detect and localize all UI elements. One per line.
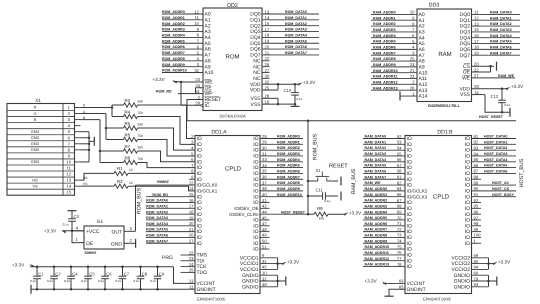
wire VSS to ground [485, 95, 510, 113]
svg-text:RAM_ADDR12: RAM_ADDR12 [373, 80, 398, 84]
svg-text:RAM_ADDR13: RAM_ADDR13 [365, 263, 390, 267]
oscillator G1 50MHZ [84, 226, 124, 249]
svg-text:14: 14 [189, 186, 194, 191]
svg-text:31: 31 [262, 151, 267, 156]
DD3 pin A7 / RAM_ADDR7 [371, 54, 417, 56]
svg-text:ROM_DATA2: ROM_DATA2 [146, 210, 168, 214]
IC DD3 RAM D43256BGU-70LL [417, 9, 472, 102]
DD3 pin OE 22 [472, 71, 491, 73]
svg-text:390: 390 [319, 217, 325, 221]
svg-text:11: 11 [67, 166, 72, 171]
svg-text:DD1:B: DD1:B [437, 129, 453, 135]
svg-text:RAM_ADDR8: RAM_ADDR8 [365, 234, 388, 238]
svg-text:RAM_ADDR2: RAM_ADDR2 [373, 22, 396, 26]
svg-text:27: 27 [474, 73, 479, 78]
svg-text:26: 26 [265, 62, 270, 67]
svg-text:32: 32 [194, 68, 199, 73]
capacitor C4 0.1u [70, 266, 73, 269]
svg-text:GND: GND [111, 241, 123, 247]
DD2 pin NC [262, 66, 270, 68]
resistor R2 10 [114, 184, 128, 188]
svg-text:+3.3V: +3.3V [511, 84, 524, 89]
svg-text:17: 17 [265, 27, 270, 32]
svg-text:ROM_DATA2: ROM_DATA2 [285, 22, 307, 26]
svg-text:ROM_ADDR10: ROM_ADDR10 [277, 193, 302, 197]
svg-text:ROM_BUS: ROM_BUS [313, 133, 319, 160]
svg-text:0.1u: 0.1u [297, 97, 303, 101]
svg-text:B: B [34, 118, 37, 122]
DD3 pin A3 / RAM_ADDR3 [371, 31, 417, 33]
svg-text:34: 34 [262, 163, 267, 168]
svg-text:RAM_ADDR4: RAM_ADDR4 [373, 34, 396, 38]
wire X1 GND bus [81, 131, 90, 133]
svg-text:+3.3V: +3.3V [498, 260, 511, 265]
DD2 pin DQ3 / ROM_DATA3 [262, 31, 319, 33]
DD3 pin DQ7 / RAM_DATA7 [472, 54, 521, 56]
svg-text:C12: C12 [491, 94, 499, 99]
wire CS OE join to ground [490, 66, 492, 72]
svg-text:15: 15 [265, 21, 270, 26]
svg-text:RAM_WE: RAM_WE [498, 74, 515, 78]
DD3 pin DQ3 / RAM_DATA3 [472, 31, 521, 33]
svg-text:RAM_ADDR5: RAM_ADDR5 [365, 216, 388, 220]
svg-text:TDO: TDO [197, 270, 208, 276]
svg-text:ROM_ADDR8: ROM_ADDR8 [162, 57, 185, 61]
svg-text:C2: C2 [55, 271, 61, 276]
DD2 pin NC [262, 72, 270, 74]
svg-text:ROM_ADDR6: ROM_ADDR6 [162, 45, 185, 49]
svg-text:23: 23 [410, 74, 415, 79]
svg-text:R3: R3 [125, 98, 131, 103]
svg-text:VDD: VDD [250, 88, 261, 94]
svg-text:C11: C11 [316, 187, 324, 192]
svg-text:14: 14 [474, 90, 479, 95]
DD3 pin A8 / RAM_ADDR8 [371, 60, 417, 62]
X1 pin stubs [75, 107, 81, 109]
svg-text:ROM_DATA4: ROM_DATA4 [146, 222, 168, 226]
DD2 pin NC [262, 77, 270, 79]
svg-text:C8: C8 [142, 271, 148, 276]
svg-text:0.1u: 0.1u [81, 279, 87, 283]
svg-text:RAM_ADDR6: RAM_ADDR6 [365, 222, 388, 226]
svg-text:ROM_ADDR1: ROM_ADDR1 [162, 16, 185, 20]
svg-text:ROM_ADDR9: ROM_ADDR9 [277, 187, 300, 191]
svg-text:IO/DEV_CLRn: IO/DEV_CLRn [229, 212, 259, 217]
DD3 pin A4 / RAM_ADDR4 [371, 37, 417, 39]
svg-text:RAM_ADDR11: RAM_ADDR11 [373, 75, 397, 79]
DD3 pin VDD 28 [472, 88, 509, 90]
DD3 pin A5 / RAM_ADDR5 [371, 43, 417, 45]
svg-text:RAM: RAM [438, 51, 451, 58]
svg-text:90: 90 [474, 186, 479, 191]
DD2 pin NC [262, 60, 270, 62]
svg-text:RAM_ADDR0: RAM_ADDR0 [373, 11, 396, 15]
net HOST_RESET horizontal line [187, 120, 516, 122]
svg-text:+VCC: +VCC [86, 229, 100, 235]
capacitor C8 0.1u [139, 266, 142, 269]
DD1:A pin 9 stub [189, 178, 195, 180]
svg-text:WE: WE [462, 75, 471, 81]
DD3 pin A1 / RAM_ADDR1 [371, 19, 417, 21]
wire VDD join [277, 84, 279, 90]
svg-text:0.1u: 0.1u [98, 279, 104, 283]
svg-text:GND: GND [31, 130, 40, 134]
svg-text:64: 64 [397, 186, 402, 191]
resistor R1 10 [114, 171, 128, 175]
svg-text:HOST_BUSY: HOST_BUSY [492, 193, 515, 197]
svg-text:15: 15 [66, 190, 71, 195]
svg-text:HOST_DATA0: HOST_DATA0 [484, 135, 507, 139]
ground symbol caps rail [30, 285, 32, 294]
power +3.3V at DD1:B VCCIO2 [493, 262, 498, 265]
svg-text:VSS: VSS [460, 92, 471, 98]
svg-text:14: 14 [265, 15, 270, 20]
svg-text:RAM_DATA7: RAM_DATA7 [365, 175, 387, 179]
DD2 IC inversion bubble [201, 104, 203, 106]
DD2 pin VSS 16 [262, 103, 278, 105]
svg-text:HOST_DATA6: HOST_DATA6 [484, 170, 507, 174]
DD3 pin DQ2 / RAM_DATA2 [472, 25, 521, 27]
svg-text:RAM_DATA0: RAM_DATA0 [490, 11, 512, 15]
svg-text:GND: GND [31, 160, 40, 164]
DD3 pin DQ4 / RAM_DATA4 [472, 37, 521, 39]
svg-text:16: 16 [265, 99, 270, 104]
svg-text:ROM_DATA0: ROM_DATA0 [146, 199, 168, 203]
DD2 pin A0 / ROM_ADDR0 [162, 13, 203, 15]
svg-text:ROM_DATA4: ROM_DATA4 [285, 34, 307, 38]
svg-text:RAM_ADDR10: RAM_ADDR10 [365, 245, 390, 249]
svg-text:ROM_ADDR9: ROM_ADDR9 [162, 63, 185, 67]
svg-text:ROM_ADDR7: ROM_ADDR7 [162, 51, 185, 55]
DD3 pin A12 / RAM_ADDR12 [371, 83, 417, 85]
svg-text:RAM_ADDR5: RAM_ADDR5 [373, 40, 396, 44]
power +3.3V at DD3 VDD [506, 87, 511, 90]
DD3 pin A13 / RAM_ADDR13 [371, 89, 417, 91]
svg-text:C5: C5 [89, 271, 95, 276]
svg-text:OE: OE [86, 241, 94, 247]
svg-text:38: 38 [262, 186, 267, 191]
svg-text:32: 32 [265, 80, 270, 85]
svg-text:+3.3V: +3.3V [303, 80, 316, 85]
svg-text:+3.3V: +3.3V [287, 260, 300, 265]
svg-text:RAM_DATA7: RAM_DATA7 [490, 51, 512, 55]
svg-text:0.1u: 0.1u [63, 222, 69, 226]
DD2 pin A8 / ROM_ADDR8 [162, 60, 203, 62]
svg-text:0.1u: 0.1u [64, 279, 70, 283]
resistor R9 390 [314, 212, 328, 216]
svg-text:C4: C4 [72, 271, 78, 276]
svg-text:390: 390 [138, 146, 144, 150]
svg-text:0.1u: 0.1u [47, 279, 53, 283]
svg-text:C7: C7 [124, 271, 130, 276]
svg-text:10: 10 [66, 159, 71, 164]
ground X1 [89, 140, 94, 142]
svg-text:RAM_ADDR6: RAM_ADDR6 [373, 45, 396, 49]
svg-text:HOST_RESET: HOST_RESET [479, 115, 504, 119]
svg-text:82: 82 [474, 140, 479, 145]
svg-text:GNDIO: GNDIO [242, 284, 259, 290]
DD2 pin DQ2 / ROM_DATA2 [262, 25, 319, 27]
svg-text:ROM_ADDR6: ROM_ADDR6 [277, 170, 300, 174]
svg-text:RAM_DATA5: RAM_DATA5 [490, 40, 512, 44]
svg-text:DD1:A: DD1:A [211, 129, 227, 135]
svg-text:IO: IO [197, 241, 202, 247]
svg-text:GND: GND [31, 142, 40, 146]
G1 pin 1 OE [72, 231, 84, 243]
svg-text:ROM_ADDR3: ROM_ADDR3 [277, 152, 300, 156]
DD3 pin A11 / RAM_ADDR11 [371, 78, 417, 80]
DD2 pin A5 / ROM_ADDR5 [162, 42, 203, 44]
svg-text:19: 19 [265, 39, 270, 44]
svg-text:RAM_ADDR1: RAM_ADDR1 [373, 16, 396, 20]
svg-text:ROM_ADDR5: ROM_ADDR5 [277, 164, 300, 168]
svg-text:GND: GND [31, 148, 40, 152]
svg-text:IO: IO [407, 264, 412, 270]
DD2 pin VDD 32 [262, 83, 278, 85]
svg-text:24: 24 [410, 62, 415, 67]
IC DD1:B CPLD EPM240T100I5 [405, 136, 472, 294]
svg-text:84: 84 [474, 151, 479, 156]
svg-text:IO/GCLK1: IO/GCLK1 [197, 188, 218, 193]
svg-text:RAM_ADDR1: RAM_ADDR1 [365, 193, 388, 197]
svg-text:DQ7: DQ7 [460, 53, 471, 59]
svg-text:21: 21 [265, 50, 270, 55]
svg-text:HOST_BUS: HOST_BUS [519, 158, 525, 187]
svg-text:HOST_DATA5: HOST_DATA5 [484, 164, 507, 168]
svg-text:R1: R1 [117, 166, 123, 171]
svg-text:RAM_ADDR4: RAM_ADDR4 [365, 210, 388, 214]
G1 pin 3 OUT to 50MHZ [124, 230, 136, 232]
svg-text:0.1u: 0.1u [30, 279, 36, 283]
svg-text:13: 13 [474, 21, 479, 26]
resistor R5 390 [124, 126, 138, 130]
svg-text:12: 12 [194, 9, 199, 14]
svg-text:R6: R6 [125, 132, 131, 137]
G1 pin 2 GND [124, 242, 136, 244]
svg-text:VS: VS [32, 184, 38, 188]
svg-text:14: 14 [66, 184, 71, 189]
svg-text:A10: A10 [205, 70, 214, 76]
svg-text:IO/GCLK0: IO/GCLK0 [197, 183, 218, 188]
capacitor C3 0.1u [71, 221, 73, 231]
svg-text:ROM_ADDR0: ROM_ADDR0 [277, 135, 300, 139]
svg-text:22: 22 [474, 67, 479, 72]
capacitor C1 0.1u [36, 266, 39, 269]
svg-text:ROM_BUS: ROM_BUS [137, 187, 143, 214]
DD3 pin A2 / RAM_ADDR2 [371, 25, 417, 27]
svg-text:DD2: DD2 [227, 3, 238, 9]
svg-text:G1: G1 [97, 219, 104, 225]
capacitor C6 0.1u [104, 266, 107, 269]
svg-text:D43256BGU-70LL: D43256BGU-70LL [428, 104, 461, 108]
svg-text:C1: C1 [38, 271, 44, 276]
svg-text:ROM_DATA6: ROM_DATA6 [146, 234, 168, 238]
svg-text:ROM_ADDR4: ROM_ADDR4 [277, 158, 300, 162]
svg-text:RAM_ADDR3: RAM_ADDR3 [365, 204, 388, 208]
svg-text:61: 61 [397, 175, 402, 180]
svg-text:86: 86 [474, 163, 479, 168]
DD2 pin A7 / ROM_ADDR7 [162, 54, 203, 56]
svg-text:ROM_ADDR8: ROM_ADDR8 [277, 181, 300, 185]
svg-text:750: 750 [138, 134, 144, 138]
svg-text:HOST_DATA3: HOST_DATA3 [484, 152, 507, 156]
svg-text:26: 26 [410, 85, 415, 90]
DD3 pin DQ0 / RAM_DATA0 [472, 13, 521, 15]
svg-text:16: 16 [474, 33, 479, 38]
DD3 pin WE 27 / net RAM_WE [472, 77, 516, 79]
ground C10 [294, 104, 296, 106]
svg-text:ROM_RD: ROM_RD [156, 89, 172, 93]
svg-text:+3.3V: +3.3V [12, 262, 25, 267]
svg-text:ROM_DATA5: ROM_DATA5 [285, 39, 307, 43]
svg-text:RAM_ADDR9: RAM_ADDR9 [365, 239, 388, 243]
DD2 pin A9 / ROM_ADDR9 [162, 66, 203, 68]
svg-text:R8: R8 [125, 155, 131, 160]
connector X1 [7, 104, 75, 196]
svg-text:29: 29 [262, 140, 267, 145]
svg-text:RAM_ADDR2: RAM_ADDR2 [365, 199, 388, 203]
wire R net junction [111, 105, 113, 117]
DD3 pin A10 / RAM_ADDR10 [371, 72, 417, 74]
DD2 pin DQ1 / ROM_DATA1 [262, 19, 319, 21]
DD2 pin A10 / ROM_ADDR10 [162, 72, 203, 74]
svg-text:ROM_ADDR2: ROM_ADDR2 [162, 22, 185, 26]
svg-text:ROM_DATA7: ROM_DATA7 [146, 239, 168, 243]
DD3 pin CS 20 [472, 65, 495, 67]
svg-text:IC: IC [205, 103, 210, 109]
svg-text:HS: HS [32, 178, 38, 182]
resistor R3 390 [124, 103, 138, 107]
svg-text:13: 13 [265, 9, 270, 14]
svg-text:EPM240T100I5: EPM240T100I5 [423, 296, 452, 301]
DD2 pin VSS 28 [262, 97, 278, 99]
svg-text:23: 23 [195, 77, 200, 82]
svg-text:390: 390 [138, 100, 144, 104]
svg-text:+3.3V: +3.3V [349, 210, 362, 215]
wire VSS join [277, 98, 279, 104]
svg-text:RAM_DATA1: RAM_DATA1 [490, 16, 512, 20]
svg-text:ROM_ADDR2: ROM_ADDR2 [277, 146, 300, 150]
svg-text:G: G [34, 112, 37, 116]
svg-text:PRG: PRG [162, 255, 173, 261]
svg-text:28: 28 [265, 94, 270, 99]
svg-text:DD3: DD3 [429, 3, 440, 9]
resistor R6 750 [124, 137, 138, 141]
svg-text:ROM_DATA1: ROM_DATA1 [146, 204, 168, 208]
svg-text:13: 13 [66, 178, 71, 183]
svg-text:RAM_ADDR12: RAM_ADDR12 [365, 257, 390, 261]
power +3.3V at DD1:A VCCIO1 [282, 262, 287, 265]
DD2 pin A1 / ROM_ADDR1 [162, 19, 203, 21]
svg-text:EPM240T100I5: EPM240T100I5 [197, 296, 226, 301]
wire B net junction [99, 120, 101, 163]
ground DD1:A GNDIO [285, 277, 287, 286]
svg-text:ROM_ADDR7: ROM_ADDR7 [277, 175, 300, 179]
svg-text:+3.3V: +3.3V [153, 77, 166, 82]
svg-text:36: 36 [262, 175, 267, 180]
ground DD1:B GNDIO [496, 277, 498, 286]
resistor R8 750 [124, 160, 138, 164]
svg-text:ROM_DATA3: ROM_DATA3 [146, 216, 168, 220]
ground DD1:B GNDINT [385, 295, 394, 297]
svg-text:IO: IO [253, 247, 258, 253]
DD3 pin DQ5 / RAM_DATA5 [472, 43, 521, 45]
DD2 pin VDD 25 [262, 89, 278, 91]
svg-text:RAM_ADDR0: RAM_ADDR0 [365, 187, 388, 191]
svg-text:GNDINT: GNDINT [197, 287, 216, 293]
svg-text:HOST_A0: HOST_A0 [492, 181, 509, 185]
svg-text:11: 11 [195, 15, 200, 20]
svg-text:0.1u: 0.1u [115, 279, 121, 283]
svg-text:RAM_ADDR9: RAM_ADDR9 [373, 63, 396, 67]
svg-text:C10: C10 [284, 88, 292, 93]
svg-text:+3.3V: +3.3V [365, 279, 378, 284]
svg-text:HOST_CS: HOST_CS [492, 187, 510, 191]
ground C3 [68, 210, 77, 212]
svg-text:RAM_WE: RAM_WE [365, 181, 382, 185]
DD3 pin DQ6 / RAM_DATA6 [472, 48, 521, 50]
resistor R4 750 [124, 114, 138, 118]
svg-text:R9: R9 [317, 206, 323, 211]
DD3 pin A14 tied to ground [400, 95, 417, 97]
svg-text:ROM_ADDR4: ROM_ADDR4 [162, 34, 185, 38]
svg-text:IO: IO [465, 241, 470, 247]
svg-text:12: 12 [66, 172, 71, 177]
svg-text:ROM_DATA0: ROM_DATA0 [285, 10, 307, 14]
svg-text:ROM_ADDR10: ROM_ADDR10 [162, 69, 187, 73]
capacitor C5 0.1u [87, 266, 90, 269]
svg-text:12: 12 [474, 16, 479, 21]
svg-text:R4: R4 [125, 109, 131, 114]
svg-text:R: R [34, 106, 37, 110]
svg-text:RAM_BUS: RAM_BUS [351, 168, 357, 194]
svg-text:0.1u: 0.1u [325, 199, 331, 203]
DD2 pin DQ4 / ROM_DATA4 [262, 36, 319, 38]
svg-text:CPLD: CPLD [225, 166, 242, 173]
svg-text:R2: R2 [117, 179, 123, 184]
svg-text:S1: S1 [316, 168, 322, 173]
svg-text:GNDIO: GNDIO [454, 284, 471, 290]
svg-text:C9: C9 [159, 271, 165, 276]
svg-text:ROM_ADDR3: ROM_ADDR3 [162, 28, 185, 32]
power +3.3V at R9 [344, 212, 349, 215]
DD2 pin A6 / ROM_ADDR6 [162, 48, 203, 50]
svg-text:GNDINT: GNDINT [407, 287, 426, 293]
svg-text:10: 10 [410, 10, 415, 15]
DD3 pin VSS 14 [472, 94, 486, 96]
svg-text:RESET: RESET [329, 164, 348, 170]
svg-text:53: 53 [397, 140, 402, 145]
svg-text:0.1u: 0.1u [133, 279, 139, 283]
svg-text:C6: C6 [106, 271, 112, 276]
wire G net junction [105, 114, 107, 140]
DD2 pin A3 / ROM_ADDR3 [162, 31, 203, 33]
svg-text:ROM_DATA7: ROM_DATA7 [285, 51, 307, 55]
svg-text:OUT: OUT [111, 229, 122, 235]
svg-text:ROM_ADDR1: ROM_ADDR1 [277, 140, 300, 144]
svg-text:R5: R5 [125, 121, 131, 126]
svg-text:20: 20 [265, 44, 270, 49]
svg-text:55: 55 [397, 151, 402, 156]
svg-text:RAM_DATA3: RAM_DATA3 [490, 28, 512, 32]
svg-text:17: 17 [474, 39, 479, 44]
svg-text:10: 10 [129, 168, 133, 172]
ground G1 [135, 239, 137, 248]
svg-text:IO/GCLK2: IO/GCLK2 [407, 188, 428, 193]
ground C11 [340, 192, 342, 201]
resistor R7 390 [124, 149, 138, 153]
svg-text:750: 750 [138, 157, 144, 161]
